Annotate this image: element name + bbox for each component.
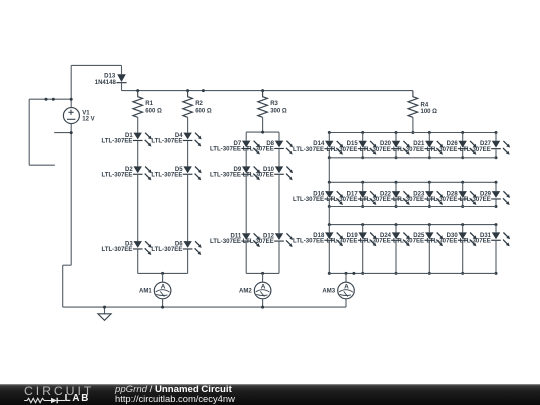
wire jog horizontal [63,264,71,266]
LED D15 [358,141,377,155]
node row3 bottom D31 [495,272,498,275]
wire D25 top stub [428,225,430,233]
svg-text:LTL-307EE: LTL-307EE [101,246,132,253]
wire D12 to join [278,242,280,274]
node row2 bottom D16 [328,205,331,208]
wire D13 cathode stub [121,83,123,90]
wire D31 top stub [495,225,497,233]
wire D24 bottom stub [395,241,397,274]
LED D24 [391,232,410,246]
svg-text:R3: R3 [270,101,278,107]
wire D16 top stub [328,182,330,191]
wire R4 to grid [412,117,414,132]
wire D19 bottom stub [362,241,364,274]
node split junction [261,131,264,134]
wire D4 to D5 [187,141,189,166]
label D25 LTL-307EE [393,233,425,245]
wire AM3 bottom stub [345,299,347,307]
url text [115,394,235,403]
node row1 top D15 [361,131,364,134]
wire AM1 top stub [162,273,164,282]
LED D3 [133,241,152,255]
node ground junction [103,306,106,309]
LED D1 [133,133,152,147]
logo wordmark LAB [65,394,91,404]
svg-text:R2: R2 [195,101,203,107]
wire D26 bottom stub [462,149,464,158]
node row3 bottom D19 [361,272,364,275]
svg-text:LTL-307EE: LTL-307EE [210,146,241,153]
node AM1 bottom [161,306,164,309]
wire D17 bottom stub [362,200,364,207]
wire jog vertical [62,265,64,307]
svg-text:12 V: 12 V [82,117,94,123]
wire V1 plus branch [29,98,71,100]
LED D26 [458,141,477,155]
svg-text:R4: R4 [421,102,429,108]
node row1 top D26 [461,131,464,134]
svg-text:100 Ω: 100 Ω [421,109,438,115]
label D14 LTL-307EE [293,141,325,153]
LED D16 [325,191,344,205]
svg-text:LTL-307EE: LTL-307EE [101,138,132,145]
wire left bracket stub [29,164,55,166]
node row2 top D17 [361,181,364,184]
wire D14 bottom stub [328,149,330,158]
title text [115,385,232,395]
LED D9 [241,166,260,180]
label D2 LTL-307EE [101,167,133,179]
logo wordmark CIRCUIT [24,385,94,397]
LED D31 [491,232,510,246]
label D24 LTL-307EE [360,233,392,245]
LED D22 [391,191,410,205]
LED D25 [425,232,444,246]
label D20 LTL-307EE [360,141,392,153]
svg-text:600 Ω: 600 Ω [195,108,212,114]
wire D22 top stub [395,182,397,191]
wire grid row1 bottom bus [329,157,496,159]
LED D19 [358,232,377,246]
LED D28 [458,191,477,205]
wire D19 top stub [362,225,364,233]
node row2 top D22 [395,181,398,184]
wire D30 top stub [462,225,464,233]
node R3 top [261,89,264,92]
LED D30 [458,232,477,246]
wire grid row3 bottom bus [329,272,496,274]
node row1 bottom D15 [361,156,364,159]
svg-text:600 Ω: 600 Ω [145,108,162,114]
wire AM3 top stub [345,273,347,282]
wire join bus 3 [246,272,279,274]
label D4 LTL-307EE [151,133,183,145]
node row1 bottom D26 [461,156,464,159]
wire V1 bottom vertical [70,124,72,266]
resistor R1 [133,91,162,118]
label D16 LTL-307EE [293,192,325,204]
wire D15 bottom stub [362,149,364,158]
node row1 top D21 [428,131,431,134]
svg-text:LTL-307EE: LTL-307EE [151,246,182,253]
wire D5 to D6 [187,175,189,241]
LED D10 [274,166,293,180]
wire D25 bottom stub [428,241,430,274]
diode D13 [95,74,127,86]
label D10 LTL-307EE [243,167,275,179]
wire D10 to D12 [278,175,280,233]
node row2 top D16 [328,181,331,184]
wire grid row1 top bus [329,132,496,134]
wire grid row2 bottom bus [329,206,496,208]
wire split bus [246,131,279,133]
node row2 bottom D22 [395,205,398,208]
svg-text:LTL-307EE: LTL-307EE [210,238,241,245]
logo icon resistor-diode [24,397,65,404]
node row1 bottom D20 [395,156,398,159]
wire D29 bottom stub [495,200,497,207]
wire D11 to join [245,242,247,274]
node row1 bottom D27 [495,156,498,159]
node row1 top D27 [495,131,498,134]
wire grid row2 top bus [329,181,496,183]
wire D18 bottom stub [328,241,330,274]
wire D31 bottom stub [495,241,497,274]
node row3 top D25 [428,223,431,226]
node AM2 bottom [261,306,264,309]
svg-text:D13: D13 [104,74,116,80]
wire D26 top stub [462,133,464,141]
node row2 top D23 [428,181,431,184]
wire row1-row2 link [328,158,330,183]
label D30 LTL-307EE [426,233,458,245]
svg-text:LTL-307EE: LTL-307EE [293,146,324,153]
wire top rail [71,64,121,66]
label D3 LTL-307EE [101,242,133,254]
ammeter AM1 [139,282,171,299]
ground [98,307,111,320]
wire AM1 bottom stub [162,299,164,307]
node row1 top D14 [328,131,331,134]
label D23 LTL-307EE [393,192,425,204]
node row3 bottom D30 [461,272,464,275]
node AM1 top [161,272,164,275]
wire bottom bus [63,306,346,308]
wire R3 to split [262,117,264,132]
node row3 top D24 [395,223,398,226]
node dot [45,98,48,101]
wire V1 top [70,65,72,107]
label D9 LTL-307EE [210,167,242,179]
node row3 bottom D25 [428,272,431,275]
node dot [52,98,55,101]
label D15 LTL-307EE [326,141,358,153]
voltage source V1 [63,108,94,124]
node row1 bottom D21 [428,156,431,159]
wire D9 to D11 [245,175,247,233]
wire D13 anode stub [121,65,123,74]
svg-text:LTL-307EE: LTL-307EE [151,138,182,145]
node row1 top D20 [395,131,398,134]
node row3 spare [352,272,355,275]
wire D14 top stub [328,133,330,141]
svg-text:AM2: AM2 [239,289,252,295]
wire D29 top stub [495,182,497,191]
label D7 LTL-307EE [210,141,242,153]
node row2 bottom D29 [495,205,498,208]
wire D21 bottom stub [428,149,430,158]
label D31 LTL-307EE [460,233,492,245]
wire D21 top stub [428,133,430,141]
node row3 top D19 [361,223,364,226]
node R2 top [186,89,189,92]
svg-text:LTL-307EE: LTL-307EE [151,171,182,178]
wire D20 top stub [395,133,397,141]
resistor R3 [258,91,287,118]
LED D8 [274,141,293,155]
ammeter AM2 [239,282,271,299]
label D12 LTL-307EE [243,234,275,246]
node row2 bottom D23 [428,205,431,208]
wire D18 top stub [328,225,330,233]
node row2 top D29 [495,181,498,184]
LED D27 [491,141,510,155]
LED D23 [425,191,444,205]
wire D17 top stub [362,182,364,191]
label D1 LTL-307EE [101,133,133,145]
LED D12 [274,233,293,247]
label D8 LTL-307EE [243,141,275,153]
svg-text:LTL-307EE: LTL-307EE [293,196,324,203]
label D27 LTL-307EE [460,141,492,153]
wire D6 to join [187,250,189,274]
LED D2 [133,166,152,180]
svg-text:1N4148: 1N4148 [95,80,117,86]
LED D17 [358,191,377,205]
svg-text:AM3: AM3 [322,289,335,295]
wire D3 to join [137,250,139,274]
svg-text:R1: R1 [145,101,153,107]
wire D2 to D3 [137,175,139,241]
label D26 LTL-307EE [426,141,458,153]
node bus1 spare [202,89,205,92]
node row3 top D31 [495,223,498,226]
wire split left drop [245,132,247,141]
node row3 top D30 [461,223,464,226]
svg-text:LTL-307EE: LTL-307EE [101,171,132,178]
wire D22 bottom stub [395,200,397,207]
wire row2-row3 link [328,207,330,225]
node AM2 top [261,272,264,275]
resistor R4 [408,91,437,118]
LED D14 [325,141,344,155]
node V1 minus junction [70,131,73,134]
svg-text:LTL-307EE: LTL-307EE [293,237,324,244]
wire bus1 [122,90,413,92]
wire D8 to D10 [278,149,280,166]
LED D18 [325,232,344,246]
label D22 LTL-307EE [360,192,392,204]
wire D28 bottom stub [462,200,464,207]
node row3 bottom D18 [328,272,331,275]
wire AM2 bottom stub [262,299,264,307]
node row1 bottom D14 [328,156,331,159]
node row2 top D28 [461,181,464,184]
wire D27 bottom stub [495,149,497,158]
node row3 top D18 [328,223,331,226]
wire R2 to D4 [187,117,189,132]
label D11 LTL-307EE [210,234,242,246]
resistor R2 [183,91,212,118]
wire D28 top stub [462,182,464,191]
svg-text:300 Ω: 300 Ω [270,108,287,114]
LED D11 [241,233,260,247]
node R1 top [136,89,139,92]
label D19 LTL-307EE [326,233,358,245]
wire D27 top stub [495,133,497,141]
wire split right drop [278,132,280,141]
ammeter AM3 [322,282,354,299]
wire D7 to D9 [245,149,247,166]
wire D23 bottom stub [428,200,430,207]
label D18 LTL-307EE [293,233,325,245]
LED D6 [183,241,202,255]
label D28 LTL-307EE [426,192,458,204]
label D6 LTL-307EE [151,242,183,254]
wire V1 minus stub [54,132,71,134]
wire D30 bottom stub [462,241,464,274]
wire join bus 1 [138,272,188,274]
label D17 LTL-307EE [326,192,358,204]
svg-text:LTL-307EE: LTL-307EE [210,171,241,178]
wire left bracket vertical [28,99,30,165]
label D29 LTL-307EE [460,192,492,204]
node AM3 top [345,272,348,275]
wire D1 to D2 [137,141,139,166]
LED D5 [183,166,202,180]
node V1 plus junction [70,98,73,101]
label D5 LTL-307EE [151,167,183,179]
wire R1 to D1 [137,117,139,132]
svg-text:AM1: AM1 [139,289,152,295]
label D21 LTL-307EE [393,141,425,153]
wire D23 top stub [428,182,430,191]
node R4 bottom [411,131,414,134]
LED D4 [183,133,202,147]
LED D7 [241,141,260,155]
node row2 bottom D28 [461,205,464,208]
node row2 bottom D17 [361,205,364,208]
LED D29 [491,191,510,205]
node row3 bottom D24 [395,272,398,275]
wire AM2 top stub [262,273,264,282]
wire D24 top stub [395,225,397,233]
wire grid row3 top bus [329,224,496,226]
LED D20 [391,141,410,155]
wire D20 bottom stub [395,149,397,158]
LED D21 [425,141,444,155]
wire D16 bottom stub [328,200,330,207]
wire D15 top stub [362,133,364,141]
